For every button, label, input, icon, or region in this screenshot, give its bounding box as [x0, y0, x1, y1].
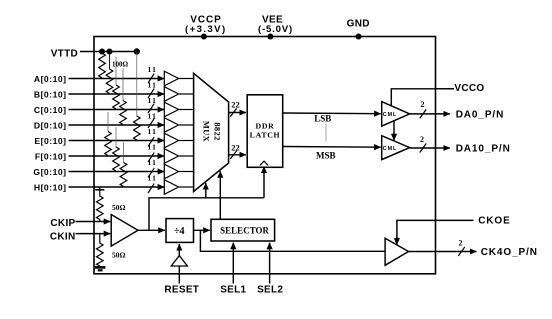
svg-text:VTTD: VTTD	[51, 48, 78, 59]
svg-text:11: 11	[148, 143, 158, 152]
resistor R4 pullup D	[120, 68, 127, 125]
buffer input H	[164, 180, 178, 195]
vtt stub tick above 50ohm R9	[99, 187, 101, 190]
node VTTD rail junction 1	[99, 49, 105, 55]
svg-text:(+3.3V): (+3.3V)	[185, 24, 227, 35]
svg-text:RESET: RESET	[164, 284, 199, 295]
bus slash DA0 output	[420, 109, 426, 118]
wire input E	[69, 140, 165, 142]
wire input D	[69, 124, 165, 126]
buffer input E	[164, 133, 178, 148]
wire VCCO feed CML1 to CML2	[393, 121, 395, 141]
resistor R3 pullup C	[113, 57, 120, 109]
bus slash DA10 output	[420, 144, 426, 153]
svg-text:11: 11	[148, 65, 158, 74]
wire buffer B to MUX	[179, 93, 194, 95]
svg-text:SEL1: SEL1	[220, 284, 246, 295]
buffer input C	[164, 102, 178, 117]
wire fast clock to MUX arrow	[205, 183, 207, 198]
wire RESET input lower shaft	[178, 266, 180, 284]
wire input B	[69, 93, 165, 95]
bus slash input A	[148, 74, 154, 83]
resistor R2 pullup B	[106, 53, 113, 94]
wire VCCO pin	[436, 88, 455, 90]
resistor R1 100ohm pullup A	[99, 53, 106, 78]
svg-text:CML: CML	[383, 146, 397, 152]
cml buffer U4 body	[382, 136, 410, 160]
bus slash MUX MSB out	[230, 151, 236, 159]
wire input H	[69, 186, 165, 188]
wire selector out to MUX	[219, 171, 221, 219]
svg-text:LSB: LSB	[314, 114, 331, 124]
svg-text:DA0_P/N: DA0_P/N	[456, 110, 505, 121]
svg-text:C[0:10]: C[0:10]	[34, 105, 67, 115]
wire CK4O output	[409, 251, 477, 253]
bus slash input F	[148, 153, 154, 162]
svg-text:2: 2	[421, 100, 425, 109]
wire MUX MSB out to DDR latch	[229, 154, 246, 156]
resistor R6 pullup F	[105, 112, 112, 156]
svg-text:CML: CML	[383, 112, 397, 118]
buffer input F	[164, 149, 178, 164]
node VTTD rail junction 3	[134, 48, 140, 54]
selector U7 body	[211, 219, 275, 241]
clock input buffer U5 body	[111, 215, 138, 247]
svg-text:11: 11	[148, 81, 158, 90]
wire latch LSB out to CML1	[283, 112, 381, 115]
ground symbol below R10	[95, 267, 106, 270]
resistor R7 pullup G	[113, 127, 120, 171]
wire CKOE input	[397, 220, 474, 239]
svg-text:2: 2	[459, 239, 463, 248]
svg-text:2: 2	[420, 135, 424, 144]
svg-text:SELECTOR: SELECTOR	[220, 226, 269, 236]
svg-text:DA10_P/N: DA10_P/N	[456, 144, 511, 155]
node VTTD rail junction 2	[107, 49, 113, 55]
svg-text:11: 11	[148, 174, 158, 183]
svg-text:A[0:10]: A[0:10]	[34, 74, 67, 84]
wire input G	[69, 171, 165, 173]
wire buffer F to MUX	[179, 155, 194, 157]
svg-text:11: 11	[148, 127, 158, 136]
svg-text:CK4O_P/N: CK4O_P/N	[481, 247, 538, 258]
svg-text:CKIN: CKIN	[50, 232, 76, 243]
bus slash input E	[148, 137, 154, 146]
svg-text:11: 11	[148, 96, 158, 105]
bus slash input D	[148, 119, 154, 128]
bus slash input H	[148, 184, 154, 193]
svg-text:SEL2: SEL2	[257, 284, 283, 295]
buffer input A	[164, 71, 178, 86]
svg-text:MSB: MSB	[316, 150, 336, 160]
svg-text:50Ω: 50Ω	[112, 203, 126, 212]
latch clock wedge	[260, 161, 268, 165]
buffer input G	[164, 164, 178, 179]
wire CKOE arrowhead into buffer	[396, 237, 398, 245]
buffer input D	[164, 118, 178, 133]
cml buffer U3 body	[382, 102, 410, 127]
wire divider out to selector	[194, 229, 210, 231]
wire buffer G to MUX	[179, 171, 194, 173]
pin VCCP stub dot	[201, 34, 207, 40]
bus slash input G	[148, 168, 154, 177]
wire buffer E to MUX	[179, 140, 194, 142]
svg-text:E[0:10]: E[0:10]	[34, 136, 66, 146]
resistor R5 pullup E	[134, 52, 141, 141]
wire VTTD input	[80, 51, 139, 53]
svg-text:VCCO: VCCO	[454, 83, 484, 94]
wire CKIP input	[76, 221, 111, 223]
wire RESET arrow into divider	[178, 244, 180, 256]
clock output buffer U8 body	[385, 238, 408, 265]
wire input C	[69, 109, 165, 111]
svg-text:(-5.0V): (-5.0V)	[258, 24, 293, 35]
wire buffer H to MUX	[179, 186, 194, 188]
vtt stub bar above 50ohm R9	[95, 189, 104, 191]
separator dotted line between LSB and MSB	[325, 124, 327, 142]
wire MUX LSB out to DDR latch	[229, 112, 246, 114]
wire latch clock riser	[263, 167, 265, 198]
svg-text:22: 22	[231, 143, 240, 153]
reset input open buffer	[171, 256, 187, 266]
svg-text:B[0:10]: B[0:10]	[34, 90, 67, 100]
wire input A	[69, 78, 165, 80]
wire buffer D to MUX	[179, 124, 194, 126]
bus slash input B	[148, 89, 154, 98]
svg-text:H[0:10]: H[0:10]	[34, 183, 67, 193]
svg-text:÷4: ÷4	[174, 226, 185, 237]
resistor R8 pullup H	[120, 142, 127, 187]
wire CKIN input	[76, 233, 111, 235]
bus slash MUX LSB out	[230, 108, 236, 116]
resistor R9 50ohm CKIP termination	[97, 190, 104, 222]
svg-text:GND: GND	[347, 19, 370, 30]
divider U6 body	[166, 219, 194, 243]
wire latch MSB out to CML2	[283, 146, 381, 149]
wire fast clock riser	[149, 198, 264, 231]
bus slash input C	[148, 104, 154, 113]
svg-text:G[0:10]: G[0:10]	[33, 167, 66, 177]
bus slash CK4O output	[458, 247, 464, 256]
wire DA10 output	[410, 147, 450, 149]
svg-text:50Ω: 50Ω	[112, 250, 126, 259]
pin VEE stub dot	[267, 34, 273, 40]
svg-text:11: 11	[148, 112, 158, 121]
svg-text:F[0:10]: F[0:10]	[35, 152, 67, 162]
svg-text:22: 22	[231, 100, 240, 110]
resistor R10 50ohm CKIN termination	[97, 234, 104, 266]
wire DA0 output	[410, 113, 450, 115]
svg-text:CKOE: CKOE	[478, 216, 511, 227]
wire SEL2 input	[269, 243, 271, 284]
svg-text:100Ω: 100Ω	[112, 60, 129, 68]
mux U1 8822 MUX body	[194, 73, 229, 191]
wire SEL1 input	[232, 243, 234, 284]
pin GND stub dot	[356, 34, 362, 40]
svg-text:D[0:10]: D[0:10]	[34, 121, 67, 131]
latch U2 DDR LATCH body	[247, 95, 283, 168]
wire slow clock drop	[200, 230, 385, 251]
wire buffer C to MUX	[179, 109, 194, 111]
chip outline border	[94, 37, 436, 274]
svg-text:CKIP: CKIP	[50, 218, 75, 229]
svg-text:11: 11	[148, 158, 158, 167]
buffer input B	[164, 87, 178, 102]
wire clock buffer out to divider	[138, 229, 165, 231]
wire buffer A to MUX	[179, 78, 194, 80]
wire input F	[69, 155, 165, 157]
wire VCCO feed horizontal	[391, 89, 454, 106]
